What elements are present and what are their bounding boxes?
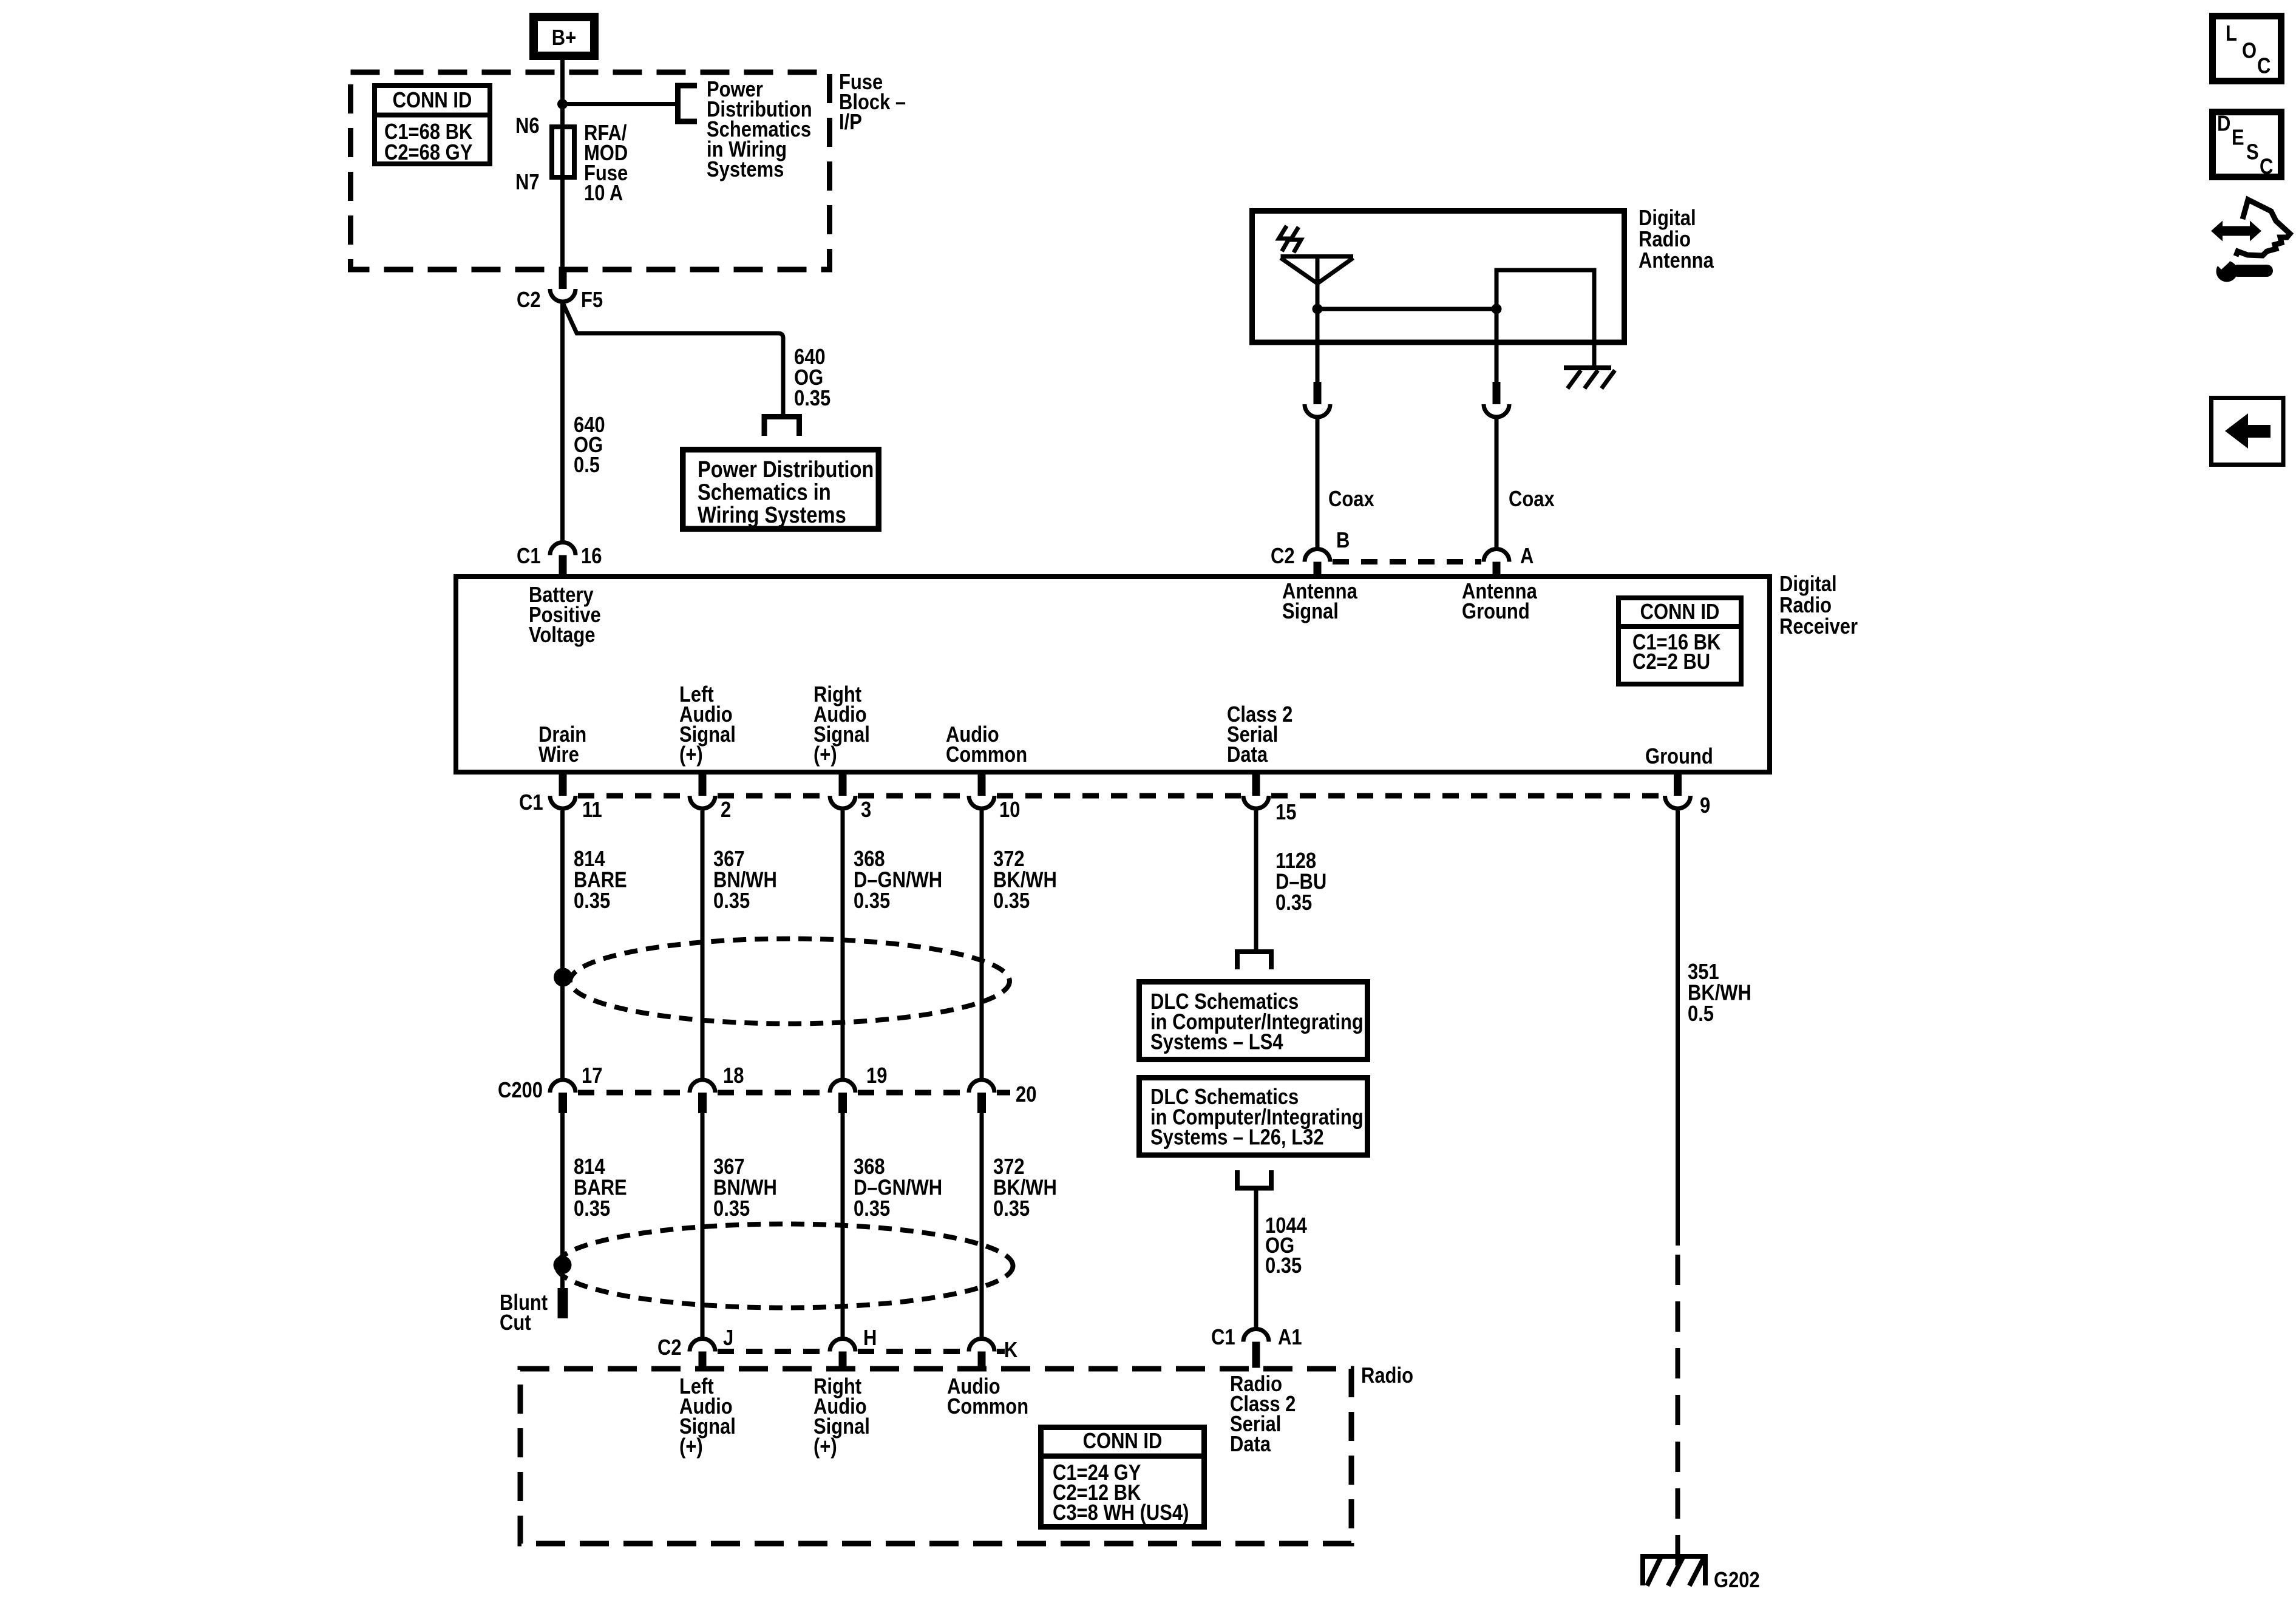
svg-text:C2: C2 (1271, 544, 1295, 569)
svg-text:S: S (2246, 141, 2259, 165)
svg-text:Radio: Radio (1361, 1364, 1413, 1388)
svg-text:N6: N6 (515, 114, 540, 138)
svg-text:C1=68 BKC2=68 GY: C1=68 BKC2=68 GY (384, 120, 472, 165)
svg-text:A: A (1520, 544, 1533, 569)
svg-text:16: 16 (581, 544, 602, 569)
svg-text:9: 9 (1700, 794, 1710, 818)
svg-text:15: 15 (1275, 801, 1296, 825)
svg-text:C200: C200 (498, 1079, 543, 1103)
svg-text:CONN ID: CONN ID (393, 89, 472, 113)
svg-text:A1: A1 (1278, 1326, 1302, 1350)
svg-text:2: 2 (721, 798, 731, 822)
svg-text:C2: C2 (517, 288, 541, 313)
svg-text:C2: C2 (657, 1336, 682, 1360)
svg-text:RFA/MODFuse10 A: RFA/MODFuse10 A (584, 121, 628, 206)
svg-text:O: O (2242, 39, 2257, 64)
svg-text:Coax: Coax (1509, 487, 1555, 512)
svg-text:17: 17 (582, 1064, 602, 1088)
svg-text:Ground: Ground (1645, 745, 1713, 769)
svg-text:C: C (2257, 55, 2271, 79)
svg-text:B: B (1336, 529, 1350, 553)
svg-text:3: 3 (861, 798, 871, 822)
svg-text:C1: C1 (1211, 1326, 1235, 1350)
svg-text:D: D (2217, 112, 2230, 136)
svg-text:10: 10 (999, 798, 1020, 822)
svg-text:N7: N7 (515, 171, 540, 195)
svg-text:BatteryPositiveVoltage: BatteryPositiveVoltage (529, 583, 601, 648)
svg-text:18: 18 (723, 1064, 744, 1088)
svg-text:CONN ID: CONN ID (1083, 1429, 1163, 1454)
svg-text:C1=16 BKC2=2 BU: C1=16 BKC2=2 BU (1632, 631, 1720, 674)
svg-text:11: 11 (582, 798, 602, 822)
svg-text:Coax: Coax (1328, 487, 1374, 512)
svg-text:G202: G202 (1714, 1568, 1760, 1593)
svg-text:20: 20 (1016, 1083, 1036, 1107)
svg-text:C: C (2260, 155, 2273, 180)
svg-text:L: L (2226, 22, 2237, 46)
svg-text:CONN ID: CONN ID (1640, 600, 1720, 625)
svg-text:19: 19 (866, 1064, 887, 1088)
svg-text:C1: C1 (519, 791, 543, 815)
svg-text:H: H (863, 1326, 877, 1351)
svg-text:AntennaGround: AntennaGround (1462, 580, 1537, 624)
svg-text:B+: B+ (552, 26, 576, 50)
svg-text:K: K (1004, 1338, 1017, 1363)
svg-text:E: E (2232, 126, 2244, 150)
svg-text:C1: C1 (517, 544, 541, 569)
svg-text:F5: F5 (581, 288, 603, 313)
svg-text:J: J (723, 1326, 733, 1351)
